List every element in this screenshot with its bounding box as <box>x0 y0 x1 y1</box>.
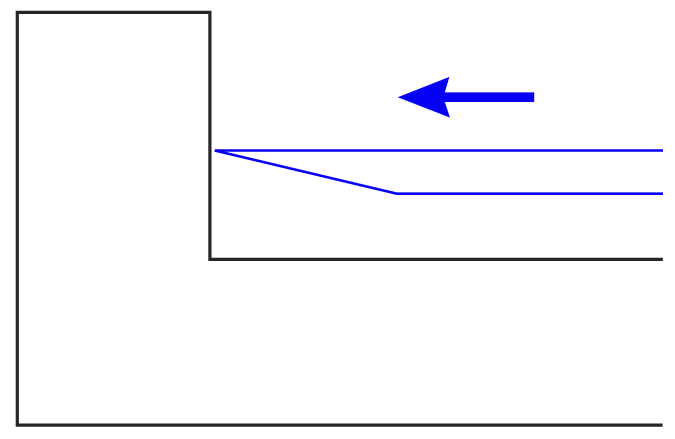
flow boundary: lower blue line with diagonal from tip <box>215 151 663 194</box>
flow boundary: upper blue line <box>215 149 663 152</box>
flow direction arrow (pointing left) <box>398 77 535 118</box>
